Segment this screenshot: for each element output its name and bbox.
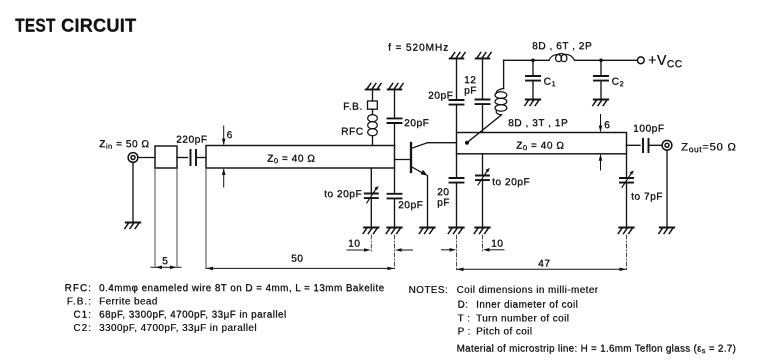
wire line2 bottom to 20pF shunt xyxy=(456,154,458,178)
wire RFC to line 1 top xyxy=(372,136,374,146)
svg-text:to 20pF: to 20pF xyxy=(324,189,362,200)
capacitor 20pF (above line 1) xyxy=(388,118,402,123)
ground (input) xyxy=(125,223,140,229)
capacitor 12pF xyxy=(476,100,490,105)
wire C1 to ground xyxy=(532,81,534,100)
svg-text:C1: C1 xyxy=(544,77,557,89)
wire coil leader to tap xyxy=(467,115,502,143)
extension line (line2 right, dash-dot) xyxy=(626,235,628,270)
svg-text:C2: C2 xyxy=(612,77,625,89)
capacitor 20pF (below line 1) xyxy=(388,194,402,199)
svg-text:Zout=50 Ω: Zout=50 Ω xyxy=(681,141,737,154)
svg-text:T :: T : xyxy=(458,313,471,324)
svg-text:10: 10 xyxy=(491,239,503,250)
dimension 10 (right) xyxy=(442,249,505,251)
svg-text:20pF: 20pF xyxy=(404,118,429,129)
wire output connector to ground xyxy=(666,150,668,228)
wire gnd to 12pF xyxy=(482,59,484,100)
svg-text:220pF: 220pF xyxy=(176,135,207,146)
dimension 6 (line 1 width) xyxy=(223,126,225,187)
wire collector to line 2 xyxy=(428,142,457,144)
svg-text:50: 50 xyxy=(291,254,303,265)
ground (20pF below line 1) xyxy=(386,228,401,234)
svg-text:Pitch of coil: Pitch of coil xyxy=(476,326,532,337)
trimmer capacitor (output, to 7pF) xyxy=(620,170,634,187)
wire emitter to ground xyxy=(427,176,429,228)
svg-text:C2:: C2: xyxy=(73,323,92,334)
svg-text:Z0 = 40 Ω: Z0 = 40 Ω xyxy=(267,154,315,166)
svg-text:to 20pF: to 20pF xyxy=(492,177,530,188)
ground (C2) xyxy=(593,100,608,106)
inverted ground (above F.B.) xyxy=(366,84,381,90)
wire C 220pF to microstrip line 1 xyxy=(196,157,206,159)
wire 20pF to ground xyxy=(394,198,396,227)
svg-text:5: 5 xyxy=(162,256,168,267)
dimension 5 xyxy=(151,266,181,268)
wire 20pF to line 1 top xyxy=(394,123,396,146)
capacitor 100pF xyxy=(643,139,649,152)
svg-text:6: 6 xyxy=(604,120,610,131)
svg-text:0.4mmφ enameled wire 8T on D =: 0.4mmφ enameled wire 8T on D = 4mm, L = … xyxy=(99,283,385,294)
wire coil to Vcc rail xyxy=(503,60,505,88)
svg-text:8D , 3T , 1P: 8D , 3T , 1P xyxy=(508,118,568,129)
extension line (trimmer, dash-dot) xyxy=(370,235,372,252)
svg-text:RFC:: RFC: xyxy=(65,283,92,294)
svg-text:8D , 6T , 2P: 8D , 6T , 2P xyxy=(532,41,592,52)
svg-text:F.B.:: F.B.: xyxy=(67,296,92,307)
ground (20pF below line 2) xyxy=(448,228,463,234)
svg-text:10: 10 xyxy=(348,239,360,250)
wire input connector to ground xyxy=(132,162,134,222)
wire line2 right edge to output trimmer xyxy=(626,154,628,178)
microstrip line 1 (Zo = 40 ohm) xyxy=(206,146,395,169)
svg-text:20: 20 xyxy=(437,187,449,198)
node C2 junction (dot) xyxy=(599,59,603,63)
svg-text:20pF: 20pF xyxy=(428,91,453,102)
svg-text:68pF, 3300pF, 4700pF, 33μF in: 68pF, 3300pF, 4700pF, 33μF in parallel xyxy=(99,310,286,321)
svg-text:6: 6 xyxy=(227,130,233,141)
wire input connector to matching block xyxy=(138,157,155,159)
wire block to C 220pF xyxy=(177,157,188,159)
wire 12pF to line 2 top xyxy=(482,104,484,132)
terminal +Vcc xyxy=(637,57,644,64)
dimension 10 (left) xyxy=(347,249,413,251)
svg-text:pF: pF xyxy=(464,86,477,97)
svg-text:TEST: TEST xyxy=(15,15,56,35)
svg-text:Z0 = 40 Ω: Z0 = 40 Ω xyxy=(516,141,564,153)
inductor 8D,6T,2P xyxy=(549,54,575,62)
node C1 junction (dot) xyxy=(531,59,535,63)
ground (C1) xyxy=(525,100,540,106)
microstrip line 2 (Zo = 40 ohm) xyxy=(457,133,627,154)
svg-text:20pF: 20pF xyxy=(398,200,423,211)
inverted ground (above 20pF line2) xyxy=(450,53,465,59)
svg-text:pF: pF xyxy=(437,198,450,209)
wire C2 to ground xyxy=(600,81,602,100)
wire trimmer to ground xyxy=(370,198,372,227)
svg-text:Inner diameter of coil: Inner diameter of coil xyxy=(476,300,578,311)
capacitor 20pF (above line 2) xyxy=(450,100,464,105)
inverted ground (above 12pF) xyxy=(476,53,491,59)
connector J1 (input) xyxy=(128,153,138,163)
svg-text:RFC: RFC xyxy=(341,127,364,138)
wire output trimmer to ground xyxy=(626,183,628,228)
wire 100pF to output connector xyxy=(649,144,663,146)
extension line (line2 left, dash-dot) xyxy=(456,235,458,270)
wire F.B. to RFC xyxy=(372,109,374,114)
capacitor 220pF xyxy=(191,150,197,165)
svg-text:P :: P : xyxy=(458,326,471,337)
wire rail to C2 xyxy=(600,60,602,76)
inductor 8D,3T,1P xyxy=(495,89,507,115)
dimension 6 (line 2 width) xyxy=(600,115,602,171)
extension line (trimmer right, dash-dot) xyxy=(482,235,484,252)
node collector tap (dot) xyxy=(465,141,469,145)
wire 20pF to ground xyxy=(456,183,458,228)
transistor Q1 xyxy=(411,143,428,174)
wire rail to C1 xyxy=(532,60,534,76)
dimension 50 xyxy=(206,267,395,269)
extension line (line1 right, dash-dot) xyxy=(394,235,396,269)
notes left column xyxy=(65,283,385,334)
svg-text:C1:: C1: xyxy=(73,310,92,321)
wire line1 right edge to 20pF shunt xyxy=(394,168,396,194)
ferrite bead F.B. xyxy=(368,101,378,109)
ground (emitter) xyxy=(419,228,434,234)
wire line2 to 100pF xyxy=(627,144,641,146)
extension lines (block 5) xyxy=(155,168,177,266)
svg-text:100pF: 100pF xyxy=(633,124,664,135)
capacitor C1 xyxy=(526,76,540,81)
wire line2 bottom to trimmer xyxy=(482,154,484,176)
svg-text:to 7pF: to 7pF xyxy=(631,192,663,203)
extension line (line1 left) xyxy=(205,168,207,268)
svg-text:D:: D: xyxy=(458,300,469,311)
wire base (line1 to Q1) xyxy=(395,159,411,161)
microstrip matching block (5mm) xyxy=(155,146,177,168)
dimension 47 xyxy=(457,268,627,270)
wire 20pF to line 2 top xyxy=(456,105,458,133)
wire Vcc rail (left of choke) xyxy=(504,59,549,61)
svg-text:3300pF, 4700pF, 33μF in parall: 3300pF, 4700pF, 33μF in parallel xyxy=(99,323,257,334)
inverted ground (above 20pF base cap) xyxy=(388,84,403,90)
capacitor C2 xyxy=(594,76,608,81)
svg-text:F.B.: F.B. xyxy=(343,102,363,113)
svg-text:NOTES:: NOTES: xyxy=(409,285,448,296)
svg-text:Material of microstrip line: H: Material of microstrip line: H = 1.6mm T… xyxy=(457,344,737,356)
svg-text:47: 47 xyxy=(538,259,550,270)
notes right column xyxy=(409,285,737,355)
capacitor 20pF (below line 2) xyxy=(450,178,464,183)
wire gnd to 20pF xyxy=(394,90,396,119)
trimmer capacitor (interstage, to 20pF) xyxy=(476,168,490,185)
ground (input trimmer) xyxy=(363,228,378,234)
wire line1 bottom to trimmer xyxy=(370,168,372,194)
ground (interstage trimmer) xyxy=(474,228,489,234)
svg-text:f = 520MHz: f = 520MHz xyxy=(388,43,449,54)
svg-text:Coil dimensions in milli-meter: Coil dimensions in milli-meter xyxy=(457,285,599,296)
svg-text:Zin = 50 Ω: Zin = 50 Ω xyxy=(99,139,149,151)
ground (output connector) xyxy=(659,228,674,234)
wire trimmer to ground xyxy=(482,180,484,227)
svg-text:Turn number of coil: Turn number of coil xyxy=(476,313,569,324)
wire gnd to 20pF xyxy=(456,59,458,101)
svg-text:CIRCUIT: CIRCUIT xyxy=(61,16,136,36)
wire gnd to F.B. xyxy=(372,90,374,102)
svg-text:12: 12 xyxy=(464,75,476,86)
connector J2 (output) xyxy=(662,140,672,150)
svg-text:Ferrite bead: Ferrite bead xyxy=(99,296,158,307)
inductor RFC xyxy=(368,115,378,136)
wire Vcc rail (right of choke) xyxy=(575,59,638,61)
trimmer capacitor (input, to 20pF) xyxy=(365,186,379,203)
svg-text:+VCC: +VCC xyxy=(648,53,682,70)
ground (output trimmer) xyxy=(618,228,633,234)
